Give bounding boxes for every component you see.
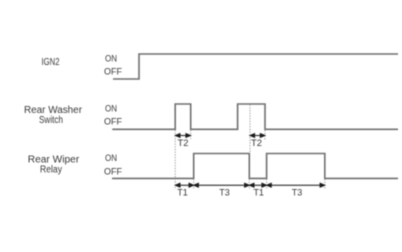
svg-text:T1: T1 xyxy=(177,188,188,198)
svg-text:T3: T3 xyxy=(219,188,230,198)
wire IGN2 waveform: off then on xyxy=(113,54,398,79)
wire wiper relay waveform xyxy=(112,154,398,179)
dimension arrow T2 second xyxy=(250,134,265,138)
node dotted reference line mid second washer pulse xyxy=(249,105,251,153)
svg-text:Switch: Switch xyxy=(39,115,63,126)
svg-text:IGN2: IGN2 xyxy=(42,57,60,68)
svg-text:ON: ON xyxy=(105,54,117,64)
wire washer switch waveform: two pulses xyxy=(112,104,398,129)
svg-text:T2: T2 xyxy=(178,138,189,148)
svg-text:OFF: OFF xyxy=(104,117,122,127)
svg-text:T3: T3 xyxy=(292,188,303,198)
extension tick under washer pulse1 fall xyxy=(190,130,192,139)
svg-text:ON: ON xyxy=(105,153,117,163)
extension tick under relay rise2 xyxy=(266,179,268,190)
dimension arrow T3 second xyxy=(267,183,325,187)
svg-text:OFF: OFF xyxy=(104,67,122,77)
extension tick under relay fall1 xyxy=(248,179,250,190)
svg-text:ON: ON xyxy=(105,104,117,114)
svg-text:T2: T2 xyxy=(251,138,262,148)
dimension arrow T3 first xyxy=(194,183,250,187)
dimension arrow T1 first xyxy=(175,183,193,187)
dimension arrow T2 first xyxy=(175,134,190,138)
extension tick under washer pulse2 fall xyxy=(264,130,266,140)
extension tick under relay rise1 xyxy=(193,179,195,190)
node dotted reference line at first washer press xyxy=(174,130,176,190)
svg-text:Relay: Relay xyxy=(40,165,62,176)
svg-text:T1: T1 xyxy=(253,188,264,198)
svg-text:OFF: OFF xyxy=(104,167,122,177)
dimension arrow T1 second xyxy=(249,183,266,187)
extension tick under relay fall2 xyxy=(324,179,326,190)
